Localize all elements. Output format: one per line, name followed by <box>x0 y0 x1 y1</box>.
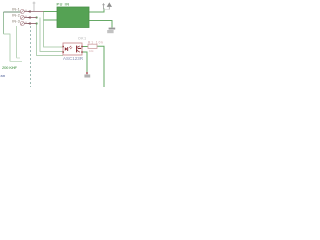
svg-text:PU IN: PU IN <box>57 3 70 7</box>
svg-text:10k: 10k <box>89 49 94 53</box>
svg-text:IN-3: IN-3 <box>12 19 20 23</box>
svg-text:IN-2: IN-2 <box>12 13 20 17</box>
svg-text:ASC123R: ASC123R <box>63 56 83 61</box>
svg-text:an: an <box>1 73 6 78</box>
svg-text:IN-1: IN-1 <box>12 7 20 11</box>
svg-text:Z00 KHF: Z00 KHF <box>2 65 18 70</box>
svg-text:OK1: OK1 <box>78 36 86 40</box>
svg-text:R1 10k: R1 10k <box>88 41 103 45</box>
